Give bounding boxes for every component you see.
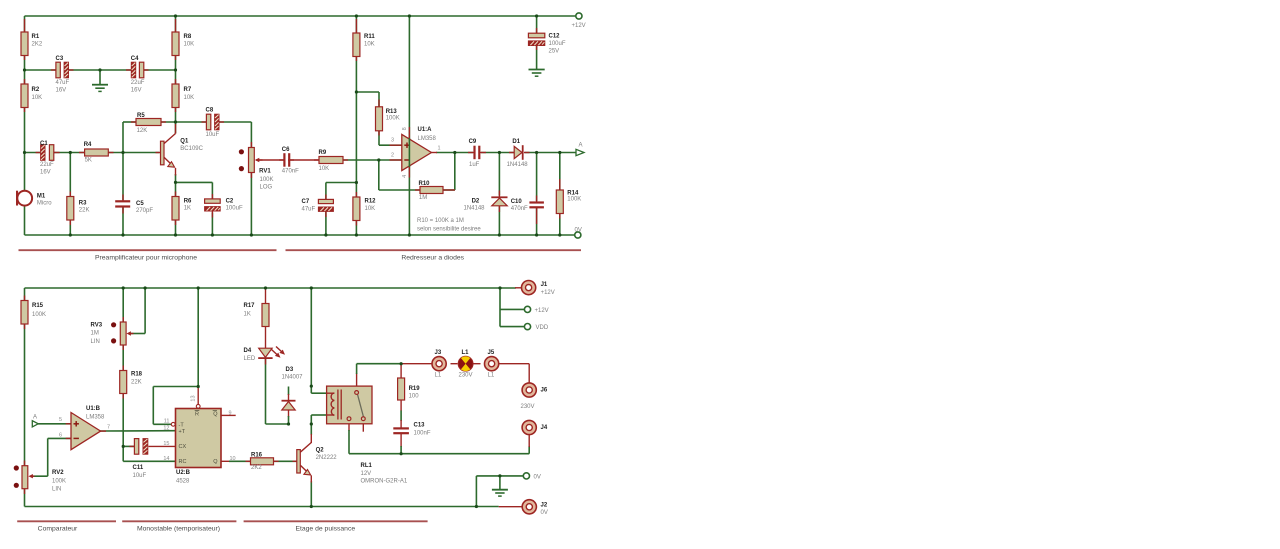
- output terminal A: [576, 142, 584, 155]
- svg-text:L1: L1: [435, 372, 442, 378]
- resistor R15: [21, 296, 46, 330]
- svg-text:R10 = 100K a 1M: R10 = 100K a 1M: [417, 218, 464, 224]
- ground C12: [529, 70, 545, 77]
- wire RV3 to R18 to RC: [123, 345, 175, 462]
- svg-text:16V: 16V: [40, 170, 51, 176]
- resistor R16: [246, 452, 279, 471]
- svg-text:Q: Q: [213, 459, 218, 465]
- svg-text:22uF: 22uF: [40, 162, 54, 168]
- svg-text:0V: 0V: [534, 474, 541, 480]
- section underline comparateur: [17, 521, 116, 532]
- wire Q2 collector: [310, 424, 312, 443]
- svg-text:R16: R16: [251, 452, 263, 458]
- wire R14 branch: [559, 153, 561, 236]
- wire R13 bias branch: [356, 92, 401, 145]
- capacitor C3: [51, 56, 74, 94]
- svg-text:16V: 16V: [56, 87, 67, 93]
- svg-text:L1: L1: [488, 372, 495, 378]
- terminal J4: [522, 420, 548, 434]
- capacitor C11: [130, 439, 148, 479]
- wire pin9 stub: [221, 414, 236, 416]
- op-amp U1:A: [390, 127, 441, 178]
- svg-text:C11: C11: [133, 465, 144, 471]
- svg-text:-T: -T: [179, 422, 185, 428]
- svg-text:RV3: RV3: [91, 322, 103, 328]
- svg-text:+12V: +12V: [572, 23, 586, 29]
- transistor Q2: [293, 443, 338, 483]
- svg-text:10uF: 10uF: [206, 132, 220, 138]
- potentiometer RV2: [14, 461, 66, 495]
- svg-text:C7: C7: [302, 199, 310, 205]
- svg-text:Etage de puissance: Etage de puissance: [295, 526, 355, 533]
- wire D3 branches: [288, 387, 290, 425]
- ground bottom circuit: [492, 476, 508, 496]
- resistor R17: [244, 303, 270, 326]
- wire R8/R7 column: [175, 16, 177, 134]
- svg-text:C10: C10: [511, 199, 523, 205]
- capacitor C5: [115, 195, 153, 214]
- wire U1:A supply pins 8/4: [408, 16, 410, 235]
- monostable U2:B 4528: [163, 395, 235, 484]
- wire U1:B output to +T pin12: [100, 430, 176, 432]
- ground: [92, 85, 108, 92]
- resistor R5: [131, 113, 166, 134]
- svg-text:Redresseur a diodes: Redresseur a diodes: [401, 254, 464, 261]
- svg-text:Q1: Q1: [180, 139, 189, 145]
- wire left column R15/RV2: [24, 288, 26, 507]
- svg-text:R6: R6: [184, 199, 192, 205]
- svg-text:230V: 230V: [521, 404, 535, 410]
- svg-text:J4: J4: [541, 425, 548, 431]
- capacitor C9: [468, 139, 486, 168]
- transistor Q1: [156, 124, 204, 176]
- svg-text:11: 11: [164, 419, 170, 425]
- capacitor C13: [393, 422, 431, 436]
- resistor R8: [172, 19, 194, 60]
- section underline monostable: [122, 521, 236, 532]
- wire relay coil feed: [311, 288, 327, 424]
- svg-text:R4: R4: [84, 142, 92, 148]
- svg-text:RV1: RV1: [259, 168, 271, 174]
- wire R10 feedback: [379, 153, 455, 191]
- svg-text:1N4148: 1N4148: [464, 206, 486, 212]
- svg-text:OMRON-G2R-A1: OMRON-G2R-A1: [361, 479, 408, 485]
- svg-text:C3: C3: [56, 56, 64, 62]
- capacitor C6: [279, 147, 299, 174]
- resistor R14: [556, 179, 581, 219]
- diode D2: [464, 191, 508, 213]
- input terminal A: [32, 414, 38, 427]
- wire R5/C8 row: [123, 122, 251, 148]
- wire C11 left: [123, 445, 135, 447]
- svg-text:D4: D4: [244, 348, 252, 354]
- svg-text:CX: CX: [179, 444, 187, 450]
- terminal J2: [522, 500, 548, 517]
- svg-text:8: 8: [402, 127, 408, 130]
- svg-text:0V: 0V: [575, 227, 582, 233]
- svg-text:5K: 5K: [85, 158, 92, 164]
- wire relay NO contact to J4 net: [349, 421, 529, 454]
- wire input A to non-inverting input: [38, 423, 71, 425]
- wire R5-left to base and C5 branch: [122, 122, 124, 235]
- wire U1:A supply over body: [408, 138, 410, 167]
- svg-text:R8: R8: [184, 34, 192, 40]
- svg-text:R2: R2: [32, 87, 40, 93]
- svg-text:100K: 100K: [386, 116, 400, 122]
- wire C7 branch: [326, 183, 357, 236]
- wire J3 to lamp: [451, 363, 458, 365]
- svg-text:0V: 0V: [541, 510, 548, 516]
- svg-text:10K: 10K: [184, 42, 195, 48]
- wire C3/C4 row: [25, 69, 176, 71]
- svg-text:Preamplificateur pour micropho: Preamplificateur pour microphone: [95, 254, 197, 261]
- section underline etage de puissance: [244, 521, 428, 532]
- svg-text:C1: C1: [40, 141, 48, 147]
- svg-text:100: 100: [409, 393, 420, 399]
- terminal VDD: [524, 324, 548, 332]
- svg-text:LIN: LIN: [52, 487, 61, 493]
- terminal J3: [432, 350, 446, 378]
- svg-text:1N4148: 1N4148: [507, 162, 529, 168]
- wire left column R1/R2/M1: [24, 16, 26, 235]
- svg-text:R13: R13: [386, 109, 398, 115]
- svg-text:22K: 22K: [79, 208, 90, 214]
- svg-text:R9: R9: [319, 150, 327, 156]
- capacitor C2: [205, 194, 243, 218]
- resistor R3: [67, 192, 90, 226]
- microphone M1: [16, 191, 52, 207]
- wire +12V rail bottom circuit: [25, 287, 522, 289]
- diode D3: [282, 367, 304, 410]
- wire J1/+12V/VDD branch: [500, 288, 525, 327]
- wire RV2 wiper to inverting input: [31, 438, 71, 476]
- wire C10 branch: [536, 153, 538, 236]
- svg-text:100uF: 100uF: [226, 206, 243, 212]
- wire R19/C13 snubber: [400, 365, 402, 454]
- wire pin11/pin13 tie-high: [153, 288, 198, 424]
- junction dots top circuit: [23, 14, 562, 236]
- svg-text:R5: R5: [137, 113, 145, 119]
- svg-text:270pF: 270pF: [136, 208, 153, 214]
- svg-text:12K: 12K: [137, 128, 148, 134]
- svg-text:R3: R3: [79, 201, 87, 207]
- resistor R13: [376, 100, 400, 136]
- svg-text:10K: 10K: [32, 95, 43, 101]
- resistor R1: [21, 19, 43, 60]
- junction dots bottom circuit: [122, 286, 502, 508]
- resistor R10: [415, 181, 455, 201]
- wire C11 to CX pin15: [149, 445, 176, 447]
- wire RV1 bottom: [250, 173, 252, 236]
- svg-text:+T: +T: [179, 429, 186, 435]
- svg-text:RL1: RL1: [361, 463, 373, 469]
- wire 0V bottom rail: [25, 234, 576, 236]
- svg-text:14: 14: [163, 456, 169, 462]
- svg-text:R7: R7: [184, 87, 192, 93]
- svg-text:15: 15: [163, 441, 169, 447]
- resistor R18: [120, 366, 143, 399]
- terminal +12V top: [572, 13, 586, 29]
- wire ground stem: [99, 70, 101, 84]
- svg-text:2: 2: [391, 152, 394, 158]
- terminal +12V bottom circuit: [524, 306, 548, 314]
- svg-text:10K: 10K: [364, 42, 375, 48]
- svg-text:R11: R11: [364, 34, 375, 40]
- wire output row C9/D1: [436, 152, 576, 154]
- svg-text:100nF: 100nF: [414, 431, 431, 437]
- svg-text:Comparateur: Comparateur: [38, 526, 78, 533]
- svg-text:D3: D3: [286, 367, 294, 373]
- svg-text:R10: R10: [419, 181, 431, 187]
- resistor R19: [398, 378, 421, 400]
- wire RV3 wiper: [131, 288, 145, 334]
- svg-text:16V: 16V: [131, 87, 142, 93]
- svg-text:+12V: +12V: [535, 308, 549, 314]
- svg-text:10: 10: [230, 456, 236, 462]
- svg-text:100K: 100K: [260, 177, 274, 183]
- svg-text:J3: J3: [435, 350, 442, 356]
- resistor R11: [353, 19, 375, 61]
- svg-text:C5: C5: [136, 201, 144, 207]
- wire Q2 emitter to 0V: [310, 481, 312, 507]
- svg-text:J1: J1: [541, 282, 548, 288]
- LED D4: [244, 347, 286, 365]
- svg-text:RV2: RV2: [52, 470, 64, 476]
- wire RV3 top: [122, 288, 124, 323]
- terminal J1: [522, 281, 555, 296]
- wire 0V ground branch: [476, 476, 523, 507]
- svg-text:C13: C13: [414, 422, 426, 428]
- svg-text:47uF: 47uF: [302, 206, 316, 212]
- svg-text:C12: C12: [549, 33, 561, 39]
- section underline preamp: [19, 250, 277, 261]
- wire C12 branch: [536, 16, 538, 69]
- svg-text:1M: 1M: [91, 331, 99, 337]
- svg-text:10K: 10K: [365, 206, 376, 212]
- svg-text:470nF: 470nF: [282, 168, 299, 174]
- annotation R10 note: [417, 218, 481, 233]
- svg-text:LOG: LOG: [260, 185, 273, 191]
- svg-text:12V: 12V: [361, 471, 372, 477]
- svg-text:R14: R14: [567, 191, 579, 197]
- svg-text:LED: LED: [244, 356, 256, 362]
- svg-text:D1: D1: [512, 139, 520, 145]
- svg-text:230V: 230V: [459, 372, 473, 378]
- svg-text:100K: 100K: [567, 197, 581, 203]
- capacitor C12: [528, 28, 565, 55]
- wire relay NC stub: [362, 421, 364, 432]
- svg-text:C4: C4: [131, 56, 139, 62]
- wire +12V top rail: [25, 15, 577, 17]
- svg-text:1: 1: [438, 145, 441, 151]
- svg-text:R17: R17: [244, 303, 256, 309]
- wire R3 branch: [69, 153, 71, 236]
- svg-text:100K: 100K: [52, 478, 66, 484]
- svg-text:U1:A: U1:A: [418, 127, 433, 133]
- svg-text:J2: J2: [541, 502, 548, 508]
- svg-text:R12: R12: [365, 198, 377, 204]
- svg-text:R: R: [195, 412, 199, 418]
- resistor R6: [172, 192, 192, 226]
- svg-text:L1: L1: [462, 350, 470, 356]
- svg-text:7: 7: [107, 424, 110, 430]
- potentiometer RV3: [91, 317, 134, 350]
- diode D1: [507, 139, 530, 168]
- svg-text:1N4007: 1N4007: [282, 375, 304, 381]
- svg-text:1M: 1M: [419, 195, 427, 201]
- svg-text:1K: 1K: [244, 311, 251, 317]
- svg-text:R19: R19: [409, 386, 421, 392]
- svg-text:D2: D2: [472, 199, 480, 205]
- wire 0V bottom net: [25, 506, 523, 508]
- svg-text:C6: C6: [282, 147, 290, 153]
- svg-text:BC109C: BC109C: [180, 146, 203, 152]
- svg-text:10K: 10K: [319, 166, 330, 172]
- svg-text:9: 9: [229, 410, 232, 416]
- capacitor C8: [202, 108, 225, 138]
- svg-text:RC: RC: [179, 459, 187, 465]
- relay RL1: [327, 386, 408, 485]
- resistor R7: [172, 79, 194, 112]
- resistor R2: [21, 79, 42, 112]
- op-amp U1:B: [59, 406, 110, 450]
- svg-text:12: 12: [163, 426, 169, 432]
- svg-text:470nF: 470nF: [511, 206, 528, 212]
- svg-text:+12V: +12V: [541, 290, 555, 296]
- svg-text:22uF: 22uF: [131, 80, 145, 86]
- svg-text:25V: 25V: [549, 49, 560, 55]
- svg-text:Monostable (temporisateur): Monostable (temporisateur): [137, 526, 220, 533]
- resistor R9: [314, 150, 348, 172]
- svg-text:U2:B: U2:B: [176, 470, 191, 476]
- resistor R12: [353, 192, 376, 226]
- svg-text:100uF: 100uF: [549, 41, 566, 47]
- svg-text:100K: 100K: [32, 312, 46, 318]
- svg-text:6: 6: [59, 432, 62, 438]
- svg-text:R1: R1: [32, 34, 40, 40]
- svg-text:C8: C8: [206, 108, 214, 114]
- svg-text:C9: C9: [469, 139, 477, 145]
- svg-text:22K: 22K: [131, 379, 142, 385]
- wire R17/D4 branch: [266, 290, 289, 425]
- svg-text:VDD: VDD: [536, 325, 549, 331]
- resistor R4: [79, 142, 114, 164]
- svg-text:2K2: 2K2: [32, 42, 43, 48]
- svg-text:13: 13: [191, 395, 197, 401]
- lamp L1: [458, 350, 473, 378]
- terminal 0V bottom circuit: [523, 473, 541, 481]
- svg-text:U1:B: U1:B: [86, 406, 101, 412]
- wire D2 branch: [498, 153, 500, 236]
- svg-text:47uF: 47uF: [56, 80, 70, 86]
- svg-text:4528: 4528: [176, 478, 190, 484]
- capacitor C7: [302, 195, 334, 218]
- terminal J5: [485, 350, 499, 378]
- capacitor C1: [36, 141, 60, 176]
- svg-text:R15: R15: [32, 303, 44, 309]
- svg-text:J6: J6: [541, 388, 548, 394]
- svg-text:Q: Q: [213, 412, 218, 418]
- svg-text:2K2: 2K2: [251, 465, 262, 471]
- svg-text:LM358: LM358: [418, 136, 437, 142]
- svg-text:M1: M1: [37, 193, 46, 199]
- wire emitter/R6/C2: [176, 174, 213, 235]
- wire J5 to J6: [499, 364, 530, 383]
- svg-text:LM358: LM358: [86, 415, 105, 421]
- svg-text:3: 3: [391, 137, 394, 143]
- potentiometer RV1: [239, 142, 274, 191]
- svg-text:C2: C2: [226, 199, 234, 205]
- svg-text:selon sensibilite desiree: selon sensibilite desiree: [417, 227, 481, 233]
- wire RV1 wiper to C6 to R9 to op-amp: [256, 159, 402, 161]
- svg-text:2N2222: 2N2222: [316, 455, 338, 461]
- svg-text:4: 4: [402, 175, 408, 178]
- wire R11/R12 column: [355, 16, 357, 235]
- svg-text:A: A: [579, 142, 583, 148]
- svg-text:J5: J5: [488, 350, 495, 356]
- section underline redresseur: [286, 250, 582, 261]
- wire Q pin10 to R16: [221, 460, 297, 462]
- svg-text:Micro: Micro: [37, 201, 52, 207]
- capacitor C10: [511, 196, 544, 225]
- svg-text:1uF: 1uF: [469, 162, 480, 168]
- svg-text:10uF: 10uF: [133, 473, 147, 479]
- svg-text:1K: 1K: [184, 205, 191, 211]
- svg-text:LIN: LIN: [91, 339, 100, 345]
- terminal J6: [521, 383, 548, 410]
- terminal 0V top circuit: [575, 227, 582, 238]
- wire base row C1/R4: [25, 152, 160, 154]
- svg-text:10K: 10K: [184, 95, 195, 101]
- svg-text:5: 5: [59, 417, 62, 423]
- svg-text:Q2: Q2: [316, 448, 325, 454]
- wire relay common to lamp row: [357, 364, 433, 393]
- wire lamp to J5: [474, 363, 481, 365]
- capacitor C4: [126, 56, 149, 94]
- svg-text:A: A: [33, 414, 37, 420]
- svg-text:R18: R18: [131, 371, 143, 377]
